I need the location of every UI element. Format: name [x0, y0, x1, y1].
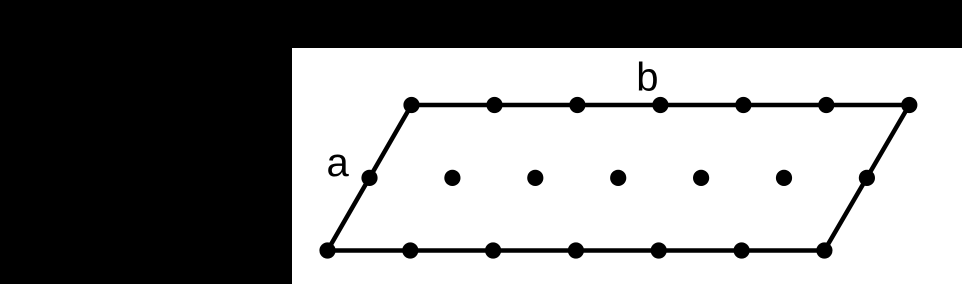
dot top 2	[486, 97, 502, 113]
dot top 5	[735, 97, 751, 113]
dot bottom 4	[568, 242, 584, 258]
dot mid 2	[444, 170, 460, 186]
dot top 7 (top-right vertex)	[901, 97, 917, 113]
edge top (b side)	[412, 103, 910, 108]
edge left (a side)	[328, 105, 412, 251]
white figure panel	[292, 48, 962, 284]
dot mid 5	[693, 170, 709, 186]
svg-text:b: b	[636, 56, 658, 100]
dot mid 4	[610, 170, 626, 186]
dot top 1 (top-left vertex)	[403, 97, 419, 113]
edge bottom	[328, 248, 825, 253]
svg-text:a: a	[327, 141, 350, 185]
edge right	[824, 105, 909, 251]
dot top 3	[569, 97, 585, 113]
dot bottom 6	[734, 242, 750, 258]
dot mid 3	[527, 170, 543, 186]
dot bottom 1 (bottom-left vertex)	[319, 242, 335, 258]
dot mid 7 (right edge midpoint)	[859, 170, 875, 186]
dot mid 6	[776, 170, 792, 186]
dot bottom 7 (bottom-right vertex)	[816, 242, 832, 258]
dot bottom 2	[402, 242, 418, 258]
dot mid 1 (left edge midpoint)	[361, 170, 377, 186]
dot top 6	[818, 97, 834, 113]
dot top 4	[652, 97, 668, 113]
dot bottom 5	[651, 242, 667, 258]
dot bottom 3	[485, 242, 501, 258]
